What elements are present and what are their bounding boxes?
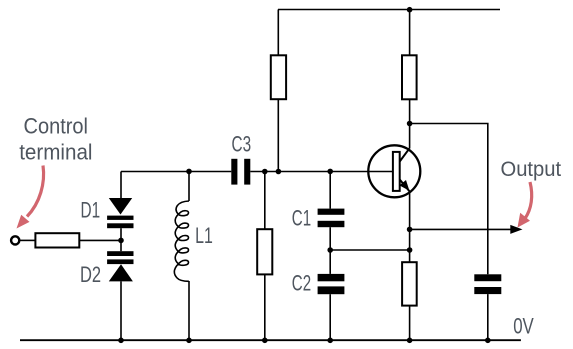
wire divider tap to emitter column: [330, 249, 409, 251]
wire 0V bottom rail: [20, 339, 521, 341]
wire R5 bottom to 0V rail: [409, 306, 411, 341]
output pointer arrow (pink): [518, 182, 532, 228]
svg-text:C2: C2: [292, 271, 311, 296]
capacitor C1: [318, 209, 345, 228]
svg-text:0V: 0V: [513, 313, 534, 338]
label Control terminal: [19, 113, 92, 164]
capacitor C2: [318, 274, 345, 294]
svg-text:Output: Output: [501, 158, 562, 181]
wire base node line right: [250, 171, 393, 173]
transistor Q1 emitter lead: [400, 180, 410, 192]
wire L1 to 0V rail: [188, 281, 190, 340]
svg-text:L1: L1: [195, 223, 213, 248]
capacitor C3: [231, 159, 250, 185]
capacitor C4 (output load): [474, 274, 501, 294]
svg-text:C3: C3: [232, 132, 252, 157]
svg-text:terminal: terminal: [19, 140, 92, 165]
transistor Q1 emitter arrowhead: [399, 180, 409, 191]
resistor R5 (emitter resistor): [402, 262, 417, 305]
svg-text:D1: D1: [81, 198, 101, 223]
svg-text:C1: C1: [292, 206, 311, 231]
resistor R2 (collector resistor): [402, 55, 417, 99]
wire R2 bottom to collector node: [409, 99, 411, 148]
resistor R4 (lower bias resistor): [257, 229, 272, 274]
wire terminal to control resistor: [20, 239, 36, 241]
wire C4 bottom to 0V rail: [487, 294, 489, 340]
wire C2 to 0V rail: [329, 294, 331, 340]
inductor L1: [174, 201, 189, 281]
wire control resistor to D node: [79, 239, 121, 241]
wire output line: [410, 228, 513, 230]
wire emitter column: [409, 192, 411, 263]
wire C1 to C2: [329, 227, 331, 274]
svg-text:D2: D2: [80, 262, 101, 287]
transistor Q1 base bar: [393, 152, 400, 191]
output arrowhead: [510, 225, 522, 234]
resistor R1 (left bias resistor): [271, 55, 286, 99]
transistor Q1 collector lead: [400, 148, 410, 161]
varactor diode D1: [107, 198, 133, 228]
wire base node line left: [121, 171, 231, 173]
control pointer arrow (pink): [17, 166, 44, 229]
wire base node to R4 top: [264, 172, 266, 230]
control terminal open circle: [11, 236, 19, 244]
svg-text:Control: Control: [24, 113, 89, 138]
resistor R3 (control series resistor): [35, 233, 79, 247]
wire R1 bottom to base node: [277, 99, 279, 171]
wire D2 to 0V rail: [120, 281, 122, 340]
wire right column to R2 top: [409, 10, 411, 56]
wire R4 bottom to 0V rail: [264, 274, 266, 340]
wire D column top: [120, 172, 122, 199]
wire top supply rail: [278, 9, 500, 11]
wire L column top: [188, 172, 190, 202]
varactor diode D2: [107, 251, 133, 281]
wire C1 column top: [329, 172, 331, 209]
wire left column to R1 top: [277, 10, 279, 56]
wire D1 to control node: [120, 228, 122, 251]
transistor Q1 circle: [368, 145, 420, 197]
wire collector node to output column: [410, 124, 488, 275]
